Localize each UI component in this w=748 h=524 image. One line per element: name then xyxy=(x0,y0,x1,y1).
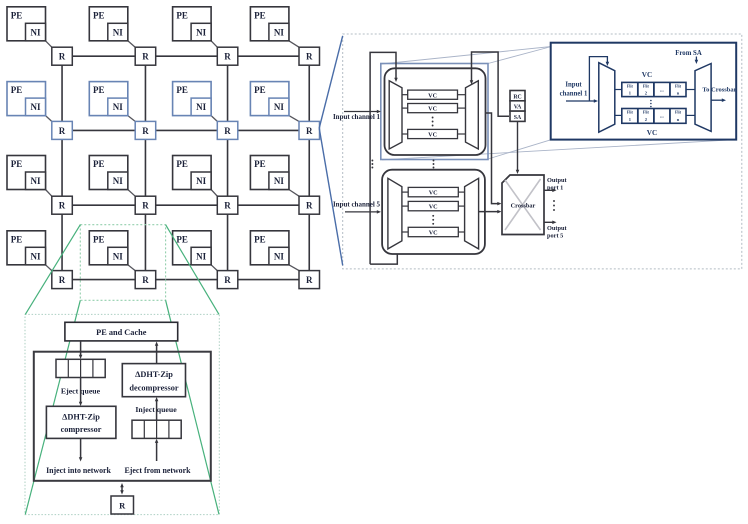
wire tile-to-router diagonal r4c3 xyxy=(211,265,217,271)
svg-text:PE: PE xyxy=(93,234,105,244)
callout green line TL xyxy=(25,225,80,315)
wire output port 5 arrow xyxy=(544,221,555,223)
callout line mesh-to-detail top xyxy=(319,36,343,128)
wire tile-to-router diagonal r2c1 xyxy=(46,116,52,122)
router R r2c3 xyxy=(217,121,238,139)
network interface NI r4c3 xyxy=(191,247,211,264)
inject queue buffer xyxy=(132,420,181,438)
wire tile-to-router diagonal r3c4 xyxy=(289,190,299,197)
wire VC4 connectors unit2 xyxy=(402,231,408,233)
wire mesh vertical col3 row3-row4 xyxy=(227,214,229,270)
svg-text:PE: PE xyxy=(11,85,23,95)
wire mesh vertical col3 row2-row3 xyxy=(227,139,229,196)
tile PE r4c4 xyxy=(250,231,289,265)
wire loop left staple xyxy=(370,52,396,264)
svg-text:Inject into network: Inject into network xyxy=(46,466,111,475)
svg-text:Output: Output xyxy=(547,177,568,184)
svg-text:Flit: Flit xyxy=(643,110,650,115)
wire mesh horizontal row3 col2-col3 xyxy=(156,204,218,206)
wire loopback to unit2 xyxy=(370,247,397,265)
svg-text:PE: PE xyxy=(93,159,105,169)
wire tile-to-router diagonal r3c1 xyxy=(46,190,52,197)
router R r3c1 xyxy=(52,196,73,214)
tile PE r1c4 xyxy=(250,7,289,41)
wire mesh horizontal row4 col3-col4 xyxy=(238,279,299,281)
svg-text:Flit: Flit xyxy=(675,84,682,89)
VC detail outer box xyxy=(551,43,737,140)
svg-text:NI: NI xyxy=(196,102,206,112)
tile PE r2c2 xyxy=(89,82,128,116)
svg-text:VC: VC xyxy=(429,230,438,237)
svg-text:R: R xyxy=(119,501,126,511)
svg-text:NI: NI xyxy=(274,27,284,37)
svg-text:VC: VC xyxy=(428,106,437,113)
svg-text:PE: PE xyxy=(11,159,23,169)
wire VC detail staple xyxy=(589,57,607,101)
svg-text:VC: VC xyxy=(642,71,652,79)
wire To Crossbar arrow xyxy=(712,99,724,101)
svg-text:Flit: Flit xyxy=(675,110,682,115)
wire tile-to-router diagonal r3c2 xyxy=(128,190,135,197)
DHT-Zip compressor box xyxy=(46,406,116,438)
projection line top a xyxy=(381,47,552,65)
svg-text:NI: NI xyxy=(274,251,284,261)
svg-text:R: R xyxy=(306,126,313,136)
router R r3c4 xyxy=(299,196,320,214)
svg-text:PE: PE xyxy=(176,10,188,20)
projection line bottom b xyxy=(382,140,736,160)
svg-text:NI: NI xyxy=(196,176,206,186)
wire mesh horizontal row4 col1-col2 xyxy=(72,279,135,281)
svg-text:PE: PE xyxy=(176,159,188,169)
wire mesh vertical col1 row2-row3 xyxy=(61,139,63,196)
virtual channel VC2 unit1 xyxy=(408,104,458,113)
virtual channel VC4 unit1 xyxy=(408,129,458,138)
projection line top b xyxy=(488,47,552,64)
wire tile to router double arrow xyxy=(121,485,123,492)
network interface NI r2c1 xyxy=(26,98,46,116)
router R r4c4 xyxy=(299,271,320,289)
svg-text:R: R xyxy=(142,126,149,136)
tile PE r3c1 xyxy=(7,156,46,190)
network interface NI r3c1 xyxy=(26,172,46,190)
svg-text:PE: PE xyxy=(11,234,23,244)
svg-text:port 5: port 5 xyxy=(547,233,563,240)
wire mesh vertical col3 row1-row2 xyxy=(227,65,229,121)
wire eject network to inject queue xyxy=(156,441,158,461)
network interface NI r3c2 xyxy=(108,172,128,190)
router R r3c2 xyxy=(135,196,156,214)
network interface NI r4c1 xyxy=(26,247,46,264)
svg-text:VC: VC xyxy=(429,204,438,211)
svg-text:R: R xyxy=(59,275,66,285)
svg-text:PE: PE xyxy=(176,234,188,244)
projection line bottom a xyxy=(488,140,552,159)
svg-text:R: R xyxy=(59,52,66,62)
wire mesh vertical col4 row1-row2 xyxy=(308,65,310,121)
wire tile-to-router diagonal r2c3 xyxy=(211,116,217,122)
tile PE r2c1 xyxy=(7,82,46,116)
input unit 1 demux xyxy=(389,81,402,149)
svg-text:NI: NI xyxy=(30,251,40,261)
svg-text:R: R xyxy=(224,201,231,211)
ellipsis dots output ports xyxy=(553,200,555,202)
svg-text:R: R xyxy=(59,201,66,211)
tile PE r2c3 xyxy=(173,82,212,116)
svg-text:decompressor: decompressor xyxy=(129,384,178,393)
svg-text:compressor: compressor xyxy=(61,425,102,434)
wire loop right staple to SA xyxy=(472,52,510,116)
callout big dotted box xyxy=(25,314,219,514)
virtual channel VC4 unit2 xyxy=(408,227,458,236)
tile inner box xyxy=(34,352,211,481)
svg-text:NI: NI xyxy=(274,176,284,186)
svg-text:NI: NI xyxy=(113,102,123,112)
network interface NI r1c2 xyxy=(108,23,128,41)
network interface NI r2c2 xyxy=(108,98,128,116)
wire mesh vertical col2 row1-row2 xyxy=(144,65,146,121)
wire mesh horizontal row2 col3-col4 xyxy=(238,129,299,131)
tile PE r2c4 xyxy=(250,82,289,116)
pipeline stage box SA xyxy=(510,111,525,121)
flit buffer row row1 xyxy=(622,82,686,96)
network interface NI r1c4 xyxy=(269,23,289,41)
callout green line BR xyxy=(166,300,219,514)
wire tile-to-router diagonal r2c4 xyxy=(289,116,299,122)
tile PE r4c1 xyxy=(7,231,46,265)
svg-text:NI: NI xyxy=(274,102,284,112)
eject queue buffer xyxy=(56,359,105,377)
tile PE r4c2 xyxy=(89,231,128,265)
wire mesh horizontal row3 col3-col4 xyxy=(238,204,299,206)
ellipsis dots unit1 VCs xyxy=(432,117,434,119)
virtual channel VC2 unit2 xyxy=(408,201,458,210)
callout green line TR xyxy=(166,225,219,315)
pipeline stage box VA xyxy=(510,101,525,111)
svg-text:PE: PE xyxy=(254,10,266,20)
wire tile-to-router diagonal r1c4 xyxy=(289,41,299,47)
wire mesh horizontal row4 col2-col3 xyxy=(156,279,218,281)
wire mesh vertical col1 row3-row4 xyxy=(61,214,63,270)
tile PE r1c1 xyxy=(7,7,46,41)
svg-text:R: R xyxy=(142,201,149,211)
wire tile-to-router diagonal r2c2 xyxy=(128,116,135,122)
wire tile-to-router diagonal r3c3 xyxy=(211,190,217,197)
wire tile-to-router diagonal r1c1 xyxy=(46,41,52,47)
svg-text:PE and Cache: PE and Cache xyxy=(96,328,147,337)
svg-text:To Crossbar: To Crossbar xyxy=(702,87,736,94)
wire decompressor to PE xyxy=(156,344,158,364)
DHT-Zip decompressor box xyxy=(122,364,185,397)
wire tile-to-router diagonal r1c2 xyxy=(128,41,135,47)
router R r1c2 xyxy=(135,47,156,65)
network interface NI r4c2 xyxy=(108,247,128,264)
input unit 2 demux xyxy=(388,178,402,249)
svg-text:NI: NI xyxy=(30,27,40,37)
svg-text:Output: Output xyxy=(547,225,568,232)
router R r4c1 xyxy=(52,271,73,289)
svg-text:VC: VC xyxy=(428,92,437,99)
svg-text:R: R xyxy=(224,275,231,285)
svg-text:From SA: From SA xyxy=(675,50,702,57)
wire unit2 output to crossbar xyxy=(479,211,500,213)
ellipsis dots between input units a xyxy=(371,160,373,162)
svg-text:R: R xyxy=(306,52,313,62)
wire mesh vertical col1 row1-row2 xyxy=(61,65,63,121)
ellipsis dots VC detail xyxy=(650,100,652,102)
wire mesh vertical col4 row3-row4 xyxy=(308,214,310,270)
network interface NI r3c3 xyxy=(191,172,211,190)
input unit 2 mux xyxy=(465,178,479,249)
svg-text:PE: PE xyxy=(11,10,23,20)
tile PE r3c3 xyxy=(173,156,212,190)
wire tile-to-router diagonal r4c4 xyxy=(289,265,299,271)
tile PE r3c2 xyxy=(89,156,128,190)
svg-text:RC: RC xyxy=(513,94,521,100)
wire From SA arrow xyxy=(695,57,697,62)
tile PE r4c3 xyxy=(173,231,212,265)
network interface NI r1c1 xyxy=(26,23,46,41)
router R r2c1 xyxy=(52,121,73,139)
svg-text:PE: PE xyxy=(254,85,266,95)
svg-text:Crossbar: Crossbar xyxy=(511,203,536,210)
router R r3c3 xyxy=(217,196,238,214)
wire compressor to inject network xyxy=(80,438,82,459)
network interface NI r3c4 xyxy=(269,172,289,190)
PE and Cache box xyxy=(65,322,178,341)
svg-text:channel 1: channel 1 xyxy=(560,91,588,98)
network interface NI r2c3 xyxy=(191,98,211,116)
svg-text:R: R xyxy=(142,275,149,285)
svg-text:VA: VA xyxy=(514,105,522,111)
wire VC row connectors left xyxy=(615,89,623,91)
router detail dashed boundary xyxy=(343,34,742,269)
input unit 1 mux xyxy=(466,81,479,149)
wire mesh horizontal row1 col3-col4 xyxy=(238,55,299,57)
virtual channel VC1 unit2 xyxy=(408,187,458,196)
wire mesh horizontal row1 col2-col3 xyxy=(156,55,218,57)
svg-text:NI: NI xyxy=(113,176,123,186)
svg-text:VC: VC xyxy=(428,132,437,139)
network interface NI r2c4 xyxy=(269,98,289,116)
svg-text:VC: VC xyxy=(429,190,438,197)
router R r1c4 xyxy=(299,47,320,65)
router R r4c2 xyxy=(135,271,156,289)
flit buffer row row2 xyxy=(622,109,686,124)
wire VC1 connectors unit2 xyxy=(402,191,408,193)
wire mesh vertical col4 row2-row3 xyxy=(308,139,310,196)
wire output port 1 arrow xyxy=(544,189,555,191)
svg-text:PE: PE xyxy=(93,85,105,95)
tile PE r3c4 xyxy=(250,156,289,190)
network interface NI r4c4 xyxy=(269,247,289,264)
svg-text:ΔDHT-Zip: ΔDHT-Zip xyxy=(62,413,100,422)
svg-text:Input channel 1: Input channel 1 xyxy=(333,113,381,121)
wire mesh horizontal row3 col1-col2 xyxy=(72,204,135,206)
wire tile-to-router diagonal r4c2 xyxy=(128,265,135,271)
crossbar box xyxy=(502,175,544,235)
VC detail mux xyxy=(695,64,711,132)
wire inject queue to decompressor xyxy=(156,400,158,421)
svg-text:Flit: Flit xyxy=(627,84,634,89)
tile PE r1c2 xyxy=(89,7,128,41)
wire PE to eject queue xyxy=(80,341,82,357)
svg-text:NI: NI xyxy=(30,176,40,186)
wire VC2 connectors unit1 xyxy=(402,107,408,109)
wire unit1 output to crossbar xyxy=(486,113,500,204)
wire VC1 connectors unit1 xyxy=(402,94,408,96)
callout line mesh-to-detail bottom xyxy=(319,128,343,265)
callout small dashed box around tile xyxy=(80,225,165,301)
wire mesh vertical col2 row3-row4 xyxy=(144,214,146,270)
input unit 1 blue highlight box xyxy=(381,64,488,160)
wire VC2 connectors unit2 xyxy=(402,205,408,207)
svg-text:R: R xyxy=(224,52,231,62)
input unit 2 body xyxy=(382,170,485,254)
ellipsis dots between input units b xyxy=(433,160,435,162)
wire mesh horizontal row1 col1-col2 xyxy=(72,55,135,57)
svg-text:NI: NI xyxy=(113,251,123,261)
svg-text:R: R xyxy=(59,126,66,136)
svg-text:PE: PE xyxy=(254,234,266,244)
svg-text:NI: NI xyxy=(196,251,206,261)
svg-text:Input: Input xyxy=(565,82,582,89)
svg-text:PE: PE xyxy=(254,159,266,169)
svg-text:NI: NI xyxy=(30,102,40,112)
svg-text:Eject from network: Eject from network xyxy=(124,466,191,475)
svg-text:R: R xyxy=(306,201,313,211)
svg-text:R: R xyxy=(142,52,149,62)
svg-text:PE: PE xyxy=(176,85,188,95)
VC detail demux xyxy=(599,63,615,133)
router R below tile detail xyxy=(111,496,134,514)
wire tile-to-router diagonal r4c1 xyxy=(46,265,52,271)
svg-text:R: R xyxy=(306,275,313,285)
wire SA to crossbar xyxy=(517,121,519,171)
router R r2c4 xyxy=(299,121,320,139)
wire mesh horizontal row2 col1-col2 xyxy=(72,129,135,131)
router R r1c3 xyxy=(217,47,238,65)
callout green line BL xyxy=(25,300,80,514)
wire mesh vertical col2 row2-row3 xyxy=(144,139,146,196)
svg-text:VC: VC xyxy=(647,129,657,137)
virtual channel VC1 unit1 xyxy=(408,90,458,99)
input unit 1 body xyxy=(385,68,486,155)
wire mesh horizontal row2 col2-col3 xyxy=(156,129,218,131)
svg-text:ΔDHT-Zip: ΔDHT-Zip xyxy=(135,370,173,379)
svg-text:Input channel 5: Input channel 5 xyxy=(333,201,381,209)
wire eject queue to compressor xyxy=(80,378,82,404)
wire tile-to-router diagonal r1c3 xyxy=(211,41,217,47)
svg-text:Flit: Flit xyxy=(643,84,650,89)
svg-text:PE: PE xyxy=(93,10,105,20)
svg-text:NI: NI xyxy=(196,27,206,37)
router R r1c1 xyxy=(52,47,73,65)
tile PE r1c3 xyxy=(173,7,212,41)
network interface NI r1c3 xyxy=(191,23,211,41)
svg-text:R: R xyxy=(224,126,231,136)
pipeline stage box RC xyxy=(510,91,525,101)
wire input channel arrow (VC detail) xyxy=(566,100,596,102)
router R r2c2 xyxy=(135,121,156,139)
wire VC row connectors right xyxy=(687,89,696,91)
svg-text:NI: NI xyxy=(113,27,123,37)
wire mesh row2 to router detail xyxy=(318,129,320,131)
router R r4c3 xyxy=(217,271,238,289)
svg-text:SA: SA xyxy=(514,115,522,121)
svg-text:Flit: Flit xyxy=(627,110,634,115)
wire VC4 connectors unit1 xyxy=(402,133,408,135)
ellipsis dots unit2 VCs xyxy=(432,215,434,217)
